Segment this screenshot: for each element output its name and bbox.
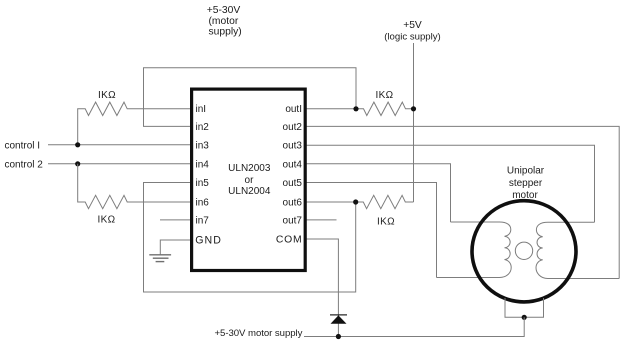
svg-text:ULN2004: ULN2004	[228, 186, 271, 197]
svg-text:GND: GND	[195, 235, 222, 247]
wire out6 to node	[306, 201, 356, 203]
svg-text:IKΩ: IKΩ	[375, 90, 393, 101]
wire out5 to motor coil A bottom	[306, 183, 437, 278]
svg-text:out6: out6	[283, 198, 303, 209]
svg-text:(logic supply): (logic supply)	[384, 32, 441, 43]
svg-text:+5-30V motor supply: +5-30V motor supply	[215, 328, 303, 339]
svg-text:IKΩ: IKΩ	[97, 215, 115, 226]
wire in2 to +5-30V rail to out1 node	[144, 68, 357, 127]
pin labels left	[195, 104, 222, 247]
svg-text:+5V: +5V	[403, 20, 422, 31]
svg-text:COM: COM	[276, 235, 303, 246]
motor M1 body circle	[472, 201, 576, 302]
motor M1 coil B (right)	[536, 222, 619, 278]
node out1-R3	[353, 106, 358, 111]
label +5-30V motor supply (top)	[207, 5, 242, 37]
motor M1 coil A (left)	[437, 222, 512, 278]
wire control 1	[48, 144, 191, 146]
svg-text:in6: in6	[196, 198, 210, 209]
svg-text:outI: outI	[285, 104, 302, 115]
node control2-R2	[75, 161, 80, 166]
svg-text:in7: in7	[196, 215, 210, 226]
node out6-R4	[353, 199, 358, 204]
wire control 2	[48, 163, 191, 165]
svg-text:IKΩ: IKΩ	[98, 90, 116, 101]
svg-text:in4: in4	[196, 159, 210, 170]
node R3-5V	[411, 106, 416, 111]
wire GND pin	[160, 240, 190, 254]
wire out2 to motor coil B bottom	[306, 126, 619, 278]
node diode-supply	[336, 334, 341, 339]
node control1-R1	[75, 142, 80, 147]
svg-text:stepper: stepper	[509, 178, 543, 189]
wire out1 to node	[306, 108, 356, 110]
svg-text:out7: out7	[283, 215, 303, 226]
svg-text:ULN2003: ULN2003	[228, 163, 271, 174]
wire out3 to motor coil B top	[306, 145, 595, 222]
resistor R1 (1K top-left)	[78, 102, 191, 145]
svg-text:supply): supply)	[209, 26, 242, 37]
svg-text:in2: in2	[196, 122, 210, 133]
svg-text:IKΩ: IKΩ	[377, 217, 395, 228]
label U1 type	[228, 163, 271, 197]
svg-text:out2: out2	[283, 122, 303, 133]
svg-text:control I: control I	[5, 141, 41, 152]
wire out4 to motor coil A top	[306, 164, 451, 222]
svg-text:inI: inI	[196, 104, 207, 115]
svg-text:in3: in3	[196, 141, 210, 152]
svg-text:out4: out4	[283, 159, 303, 170]
svg-text:(motor: (motor	[209, 16, 239, 27]
svg-text:out5: out5	[283, 178, 303, 189]
wire in7 stub	[160, 219, 191, 221]
IC U1 ULN2003/ULN2004	[192, 89, 306, 270]
wire in5 loop to out6 node	[144, 183, 356, 293]
diode D1	[330, 315, 347, 324]
ground symbol	[149, 255, 171, 262]
label +5V logic supply	[384, 20, 441, 42]
node motor common	[522, 315, 527, 320]
svg-text:in5: in5	[196, 178, 210, 189]
motor M1 rotor circle	[515, 242, 532, 259]
pin labels right	[276, 104, 303, 246]
resistor R2 (1K bottom-left)	[78, 164, 191, 209]
label unipolar stepper motor	[507, 166, 545, 201]
svg-text:or: or	[245, 175, 255, 186]
wire out7 stub	[306, 219, 337, 221]
svg-text:+5-30V: +5-30V	[207, 5, 241, 16]
svg-text:control 2: control 2	[5, 160, 44, 171]
wire COM to diode	[306, 239, 338, 337]
svg-text:out3: out3	[283, 141, 303, 152]
wire motor common to supply	[304, 317, 524, 336]
svg-text:Unipolar: Unipolar	[507, 166, 545, 177]
resistor R4 (1K bottom-right)	[356, 195, 414, 208]
resistor R3 (1K top-right)	[356, 102, 414, 115]
motor M1 terminal bracket	[505, 298, 544, 317]
wire +5V vertical	[413, 43, 415, 202]
